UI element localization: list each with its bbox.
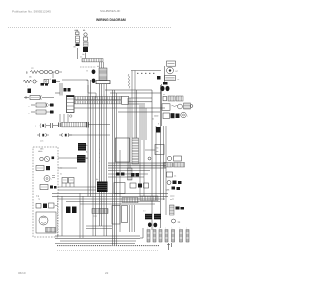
svg-text:AA: AA	[83, 29, 86, 32]
svg-text:s: s	[159, 228, 160, 230]
svg-text:nC: nC	[174, 176, 177, 178]
svg-text:mm: mm	[156, 148, 159, 150]
svg-text:ee: ee	[163, 94, 165, 96]
svg-text:ff: ff	[158, 124, 159, 126]
svg-text:a: a	[29, 106, 30, 108]
svg-text:bbb: bbb	[29, 77, 32, 79]
svg-text:dd: dd	[97, 66, 99, 68]
svg-text:s: s	[186, 228, 187, 230]
svg-text:t: t	[52, 178, 53, 181]
svg-text:c: c	[27, 86, 28, 88]
svg-text:B: B	[87, 71, 89, 73]
svg-text:hhhh: hhhh	[40, 149, 44, 151]
svg-text:ddddd: ddddd	[154, 116, 158, 118]
svg-text:k: k	[99, 153, 100, 155]
svg-text:rr rr: rr rr	[143, 210, 146, 213]
svg-text:qqq: qqq	[178, 222, 181, 224]
svg-text:SGHB05ES-0F: SGHB05ES-0F	[100, 9, 121, 13]
svg-text:s: s	[180, 228, 181, 230]
svg-text:pp pp: pp pp	[93, 216, 97, 218]
svg-text:dd: dd	[152, 119, 154, 121]
svg-text:kk: kk	[86, 152, 88, 154]
svg-text:s: s	[147, 228, 148, 230]
svg-text:SA B: SA B	[166, 189, 171, 192]
svg-text:kk: kk	[86, 158, 88, 160]
svg-text:CC: CC	[80, 57, 83, 59]
svg-text:f: f	[187, 116, 188, 118]
svg-text:k: k	[99, 149, 100, 151]
svg-text:Publication No. 5995512345: Publication No. 5995512345	[12, 10, 51, 14]
svg-text:22: 22	[105, 271, 109, 275]
svg-text:s: s	[153, 228, 154, 230]
svg-text:kkk: kkk	[96, 179, 99, 181]
svg-text:tK: tK	[50, 78, 52, 81]
svg-text:iiii jjj: iiii jjj	[36, 196, 40, 198]
svg-text:06/10: 06/10	[18, 271, 26, 275]
svg-text:a: a	[35, 126, 36, 128]
svg-text:ooooo: ooooo	[170, 196, 175, 198]
svg-text:LP: LP	[176, 71, 179, 73]
svg-text:WIRING DIAGRAM: WIRING DIAGRAM	[96, 18, 126, 22]
svg-text:s: s	[172, 228, 173, 230]
svg-text:icem: icem	[40, 141, 44, 143]
svg-text:kk: kk	[86, 145, 88, 147]
svg-text:B: B	[26, 72, 28, 74]
svg-text:ii jj: ii jj	[38, 199, 40, 201]
svg-text:k: k	[99, 161, 100, 163]
svg-text:cc: cc	[178, 79, 180, 81]
svg-text:oo: oo	[172, 199, 174, 201]
svg-text:s: s	[165, 228, 166, 230]
svg-text:BB: BB	[74, 47, 76, 49]
svg-text:mm: mm	[156, 151, 159, 153]
svg-text:a: a	[29, 113, 30, 115]
svg-text:k: k	[99, 157, 100, 159]
svg-text:aaa: aaa	[31, 68, 34, 70]
svg-text:hhhhh: hhhhh	[38, 151, 43, 153]
svg-text:bb: bb	[83, 54, 85, 56]
svg-text:tm: tm	[60, 173, 62, 176]
